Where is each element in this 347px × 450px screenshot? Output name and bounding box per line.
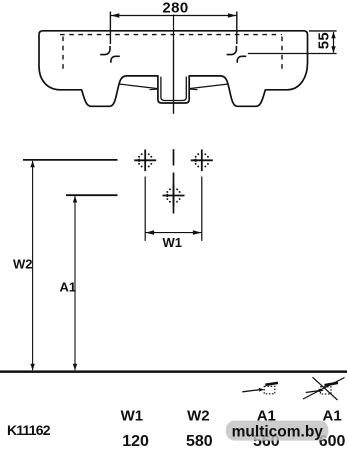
svg-text:A1: A1 — [60, 280, 77, 295]
svg-text:A1: A1 — [323, 408, 342, 425]
svg-text:580: 580 — [186, 433, 213, 450]
svg-text:W1: W1 — [121, 408, 144, 425]
svg-text:280: 280 — [162, 0, 188, 17]
svg-text:multicom.by: multicom.by — [232, 423, 324, 440]
svg-text:W1: W1 — [162, 235, 182, 250]
svg-text:K11162: K11162 — [7, 422, 51, 438]
svg-text:120: 120 — [122, 433, 149, 450]
svg-text:W2: W2 — [187, 408, 210, 425]
svg-text:55: 55 — [316, 32, 333, 49]
svg-text:W2: W2 — [13, 256, 33, 271]
